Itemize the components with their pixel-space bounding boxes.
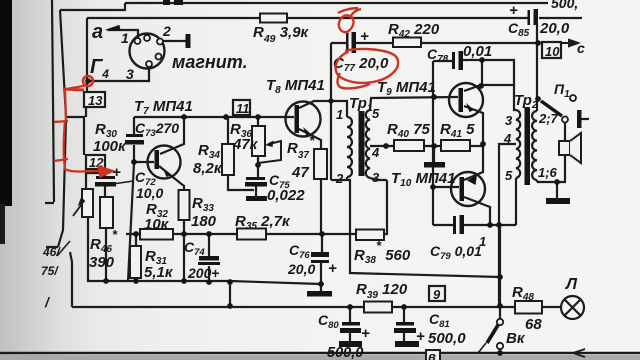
leader line C72 <box>113 181 133 184</box>
wire Tr2 pin4 loop <box>499 144 516 306</box>
wire node C72 top <box>86 173 105 176</box>
red wire annotation left <box>64 85 99 172</box>
wire T7 collector drop <box>160 117 184 154</box>
capacitor C76 <box>311 252 329 263</box>
ground bar R40 R41 <box>424 162 445 168</box>
svg-text:0,01: 0,01 <box>463 43 492 60</box>
wire Tr1 pin5 to T9 base <box>370 97 458 110</box>
red ring junction <box>83 76 93 86</box>
resistor R36 <box>252 126 265 156</box>
svg-text:10к: 10к <box>144 216 170 233</box>
wire pin2 to terminal <box>163 40 186 42</box>
wire R36 bottom to C75 <box>257 156 259 177</box>
trimmer arrow R36 <box>258 141 281 163</box>
bottom letterbox band <box>0 355 640 360</box>
wire T9 emitter rail <box>464 106 483 173</box>
svg-text:1: 1 <box>121 30 129 46</box>
ground bar Tr2 <box>546 198 570 204</box>
svg-text:5: 5 <box>505 168 513 183</box>
svg-text:46/: 46/ <box>42 245 61 259</box>
svg-text:магнит.: магнит. <box>172 52 248 72</box>
break slash left line <box>57 241 70 256</box>
svg-text:2: 2 <box>162 23 171 39</box>
svg-text:2: 2 <box>335 171 344 186</box>
ground bar C76 <box>307 291 332 297</box>
svg-text:20,0: 20,0 <box>287 261 315 277</box>
svg-text:+: + <box>360 28 369 45</box>
arrow to a <box>106 26 120 31</box>
wire Tr1 pin3 down <box>370 178 387 180</box>
transistor T10 <box>451 172 485 206</box>
transistor T9 <box>449 83 483 117</box>
svg-text:С74: С74 <box>184 239 205 258</box>
wire C73 to T7 base <box>134 145 154 162</box>
transistor T8 <box>286 102 321 137</box>
svg-text:75/: 75/ <box>41 264 59 278</box>
socket pins <box>135 35 164 67</box>
svg-text:+: + <box>509 2 518 19</box>
wire T10 collector drop <box>464 197 490 225</box>
svg-text:С78: С78 <box>427 46 449 65</box>
svg-text:47к: 47к <box>232 136 259 153</box>
wire C81 stem <box>403 307 405 341</box>
wire C78 right <box>463 60 514 86</box>
svg-text:500,0: 500,0 <box>327 345 363 360</box>
wire left line to bottom frame <box>46 117 72 307</box>
svg-text:200+: 200+ <box>187 265 220 281</box>
svg-text:С77 20,0: С77 20,0 <box>333 55 389 74</box>
svg-text:R42 220: R42 220 <box>388 21 440 40</box>
capacitor C77 <box>346 32 356 53</box>
wire R48 to lamp <box>542 306 561 308</box>
wire T10 base <box>433 186 459 188</box>
svg-text:Т9 МП41: Т9 МП41 <box>377 79 436 98</box>
resistor R33 <box>179 190 190 220</box>
chassis bar C81 <box>395 341 419 347</box>
svg-text:68: 68 <box>525 316 542 333</box>
red tick upper <box>54 121 68 122</box>
box 11 <box>233 100 250 115</box>
capacitor C80 <box>340 322 361 333</box>
wire R34 top <box>227 117 229 144</box>
svg-text:П1: П1 <box>554 81 570 100</box>
red arrowhead into box12 <box>98 166 114 177</box>
svg-text:R41 5: R41 5 <box>440 121 475 140</box>
svg-text:500,: 500, <box>551 0 578 11</box>
svg-text:Вк: Вк <box>506 330 526 347</box>
box 13 <box>84 92 105 107</box>
wire C79 line y225 <box>433 224 516 226</box>
wire bus to bottom frame <box>229 282 231 306</box>
wire C76 stem <box>321 234 322 291</box>
red annotations <box>54 8 398 177</box>
svg-text:4: 4 <box>371 145 380 160</box>
svg-text:8,2к: 8,2к <box>193 160 223 177</box>
resistor R41 <box>441 140 470 151</box>
red scribble b <box>338 8 361 32</box>
wire C75 to ground bar <box>255 186 257 196</box>
svg-text:С79 0,01: С79 0,01 <box>430 243 482 262</box>
transistor T7 <box>148 146 181 179</box>
svg-text:Тр1: Тр1 <box>349 95 373 114</box>
wire Tr2 pin5 loop <box>515 178 517 225</box>
resistor R32 <box>140 229 173 240</box>
bottom frame line y307 <box>72 306 515 308</box>
svg-text:11: 11 <box>236 101 250 116</box>
wire R31 stubs <box>135 234 137 281</box>
switch P1 contacts <box>562 95 576 123</box>
svg-text:47: 47 <box>291 164 309 181</box>
resistor R46 <box>82 189 93 217</box>
wire R33 bottom rail <box>183 220 185 282</box>
transformer Tr1 right winding <box>366 110 370 178</box>
lamp L <box>561 296 584 319</box>
svg-text:R33: R33 <box>192 195 214 214</box>
switch Vk contacts <box>497 319 503 349</box>
wire top edge bus <box>125 2 548 4</box>
capacitor C85 <box>528 9 539 25</box>
svg-text:3: 3 <box>126 66 134 82</box>
slash near Vk <box>478 343 486 353</box>
arrow right of box10 <box>561 40 578 46</box>
red tick lower <box>54 159 68 161</box>
svg-text:390: 390 <box>89 254 115 271</box>
svg-text:1: 1 <box>479 234 486 249</box>
wire arrow a to pin1 <box>108 30 138 38</box>
svg-text:100к: 100к <box>93 138 127 155</box>
svg-text:2;7: 2;7 <box>538 111 559 126</box>
left black scan bar <box>0 0 12 244</box>
red ellipse around C77 value <box>336 49 399 88</box>
svg-text:4: 4 <box>503 131 512 146</box>
wire C78 drop to collector line <box>481 60 483 86</box>
terminal bar pin2 <box>186 34 191 48</box>
svg-text:R34: R34 <box>198 142 220 161</box>
svg-text:3: 3 <box>372 170 380 185</box>
svg-text:С76: С76 <box>289 242 310 261</box>
resistor R49 <box>260 14 287 23</box>
svg-text:/: / <box>44 294 51 310</box>
wire R40 R41 link <box>424 145 441 147</box>
wire C77 down to Tr1 node <box>330 43 332 180</box>
terminal bar P1 <box>577 110 582 128</box>
wire Tr1 pin2 <box>331 177 500 277</box>
wire R36 top <box>257 117 259 126</box>
svg-text:500,0: 500,0 <box>428 330 466 347</box>
svg-text:9: 9 <box>433 287 441 302</box>
resistor R42 <box>393 38 421 48</box>
wire Vk bottom stub <box>499 349 501 353</box>
wire C78 left <box>433 60 452 62</box>
bottom letterbox wire <box>0 352 640 355</box>
svg-text:180: 180 <box>191 213 217 230</box>
arrow on bottom line <box>573 349 585 357</box>
wire left frame line B with jog <box>60 10 86 189</box>
box 9 <box>429 286 445 301</box>
resistor R40 <box>394 140 424 151</box>
svg-text:а: а <box>92 21 103 43</box>
resistor R38 <box>356 230 384 241</box>
svg-text:5,1к: 5,1к <box>144 264 174 281</box>
svg-text:Т8 МП41: Т8 МП41 <box>266 77 325 96</box>
svg-text:R46*: R46* <box>90 227 118 255</box>
resistor R34 <box>222 144 234 175</box>
svg-text:1;6: 1;6 <box>538 165 558 180</box>
resistor R39 <box>364 302 392 313</box>
capacitor C78 <box>452 51 463 70</box>
wire speaker drops <box>564 123 566 183</box>
transformer Tr2 core <box>525 107 531 185</box>
svg-text:С85: С85 <box>508 20 530 39</box>
svg-text:в: в <box>428 349 436 360</box>
svg-text:R35 2,7к: R35 2,7к <box>235 213 291 232</box>
svg-text:10,0: 10,0 <box>136 185 163 201</box>
wire T9 collector to Tr2 pin3 <box>464 85 516 110</box>
resistor R48 <box>515 301 542 314</box>
wire C74 stem <box>208 235 210 282</box>
speaker <box>559 133 581 163</box>
wire magnit block left <box>86 18 88 92</box>
svg-text:Л: Л <box>565 276 578 293</box>
transformer Tr2 right winding <box>532 111 537 180</box>
svg-text:Т10 МП41: Т10 МП41 <box>391 170 455 189</box>
wire C72 bottom to R30 body <box>104 186 106 197</box>
svg-text:+: + <box>328 260 337 277</box>
svg-text:20,0: 20,0 <box>539 20 570 37</box>
svg-text:+: + <box>416 328 425 345</box>
wire P1 right contact stub <box>581 118 589 120</box>
capacitor C79 <box>453 215 464 234</box>
wire C77 node <box>331 42 538 44</box>
transformer Tr2 left winding <box>516 110 520 178</box>
capacitor C72 <box>95 176 116 187</box>
wire R37 bottom <box>320 179 322 234</box>
wire T10 emitter join <box>464 172 483 180</box>
transformer Tr1 left winding <box>347 117 352 177</box>
wire magnit block bottom <box>87 67 149 81</box>
svg-text:R48: R48 <box>512 284 534 303</box>
svg-text:3: 3 <box>505 113 513 128</box>
svg-text:Т7 МП41: Т7 МП41 <box>134 98 193 117</box>
wire main supply line y18 <box>87 17 582 19</box>
wire R30 body bottom <box>105 228 107 281</box>
svg-text:R40 75: R40 75 <box>387 121 430 140</box>
wire T8 emitter to R37 <box>299 129 321 149</box>
svg-text:5: 5 <box>372 106 380 121</box>
resistor R37 <box>314 149 327 179</box>
svg-text:R49 3,9к: R49 3,9к <box>253 24 310 45</box>
wire divider rail x434 <box>432 61 434 225</box>
capacitor C74 <box>198 256 220 265</box>
svg-text:С81: С81 <box>429 311 450 330</box>
capacitor C81 <box>394 322 416 333</box>
wire R34 bottom <box>228 175 254 190</box>
svg-text:1: 1 <box>336 107 343 122</box>
box 12 <box>86 155 105 169</box>
trimmer arrow R46 <box>73 199 84 217</box>
wire T7 emitter to R33 <box>159 166 184 190</box>
wire C85 to switch node <box>536 25 538 99</box>
node line y234 <box>126 180 387 234</box>
svg-text:R39 120: R39 120 <box>356 281 408 301</box>
wire R41 to emitter rail <box>470 145 483 147</box>
wire C80 stem <box>349 307 351 341</box>
wire Tr2 right top to switch <box>536 99 538 111</box>
switch P1 blade <box>541 101 562 116</box>
ground bar C75 <box>246 196 267 201</box>
red bar near ring <box>63 89 84 90</box>
wire Tr2 right bottom ground <box>537 180 566 198</box>
svg-text:+: + <box>112 164 121 181</box>
box v bottom <box>426 350 440 360</box>
resistor R31 <box>130 246 141 278</box>
capacitor C73 <box>125 134 144 145</box>
transformer Tr1 core <box>359 111 365 176</box>
resistor R30 body <box>100 197 113 228</box>
capacitor C75 <box>245 177 267 187</box>
svg-text:13: 13 <box>88 93 103 108</box>
resistor R35 <box>237 229 266 240</box>
ground bus y281 <box>88 217 321 284</box>
connector socket G4 <box>130 34 165 69</box>
wire Tr1 tap4 to R40 <box>370 145 394 147</box>
box 10 <box>542 42 561 58</box>
wire divider ground stem <box>433 146 435 162</box>
svg-text:0,022: 0,022 <box>267 187 305 204</box>
wire T8 collector <box>299 101 331 108</box>
wire T7 base node down to bus <box>128 163 134 281</box>
svg-text:+: + <box>361 325 370 342</box>
svg-text:Тр2: Тр2 <box>514 92 538 111</box>
wire left frame line A <box>45 0 54 203</box>
svg-text:С80: С80 <box>318 312 339 331</box>
wire Tr1 pin1 branch <box>331 101 347 117</box>
switch Vk blade <box>487 325 498 343</box>
svg-text:10: 10 <box>545 44 560 59</box>
wire switch Vk column <box>499 225 501 319</box>
chassis bar C80 <box>339 341 362 347</box>
components layer <box>73 9 585 360</box>
svg-text:R38* 560: R38* 560 <box>354 238 411 266</box>
node base bias line y117 <box>134 117 294 134</box>
wire top second bus <box>60 3 125 10</box>
